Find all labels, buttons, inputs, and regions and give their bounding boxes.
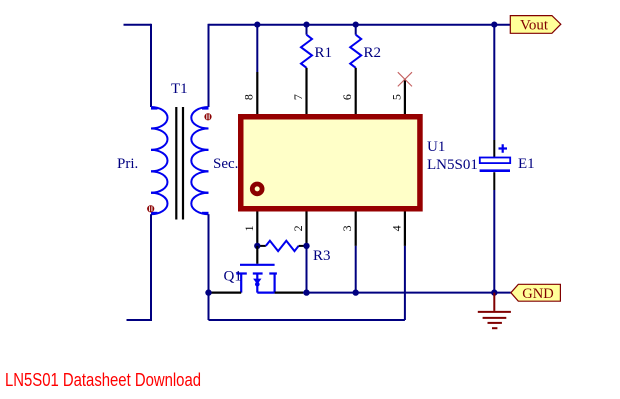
wire E1 column <box>493 25 495 140</box>
svg-text:5: 5 <box>389 94 403 100</box>
pin 4 <box>404 212 406 246</box>
ground symbol <box>478 293 511 329</box>
svg-text:Sec.: Sec. <box>213 156 238 172</box>
svg-text:Vout: Vout <box>520 18 549 34</box>
resistor R2 <box>355 25 357 35</box>
wire to GND flag <box>494 292 511 294</box>
power flag Vout <box>510 16 561 34</box>
wire secondary top lead <box>208 24 210 107</box>
svg-text:2: 2 <box>291 225 305 231</box>
wire top primary stub <box>124 24 152 26</box>
transformer polarity dot primary <box>147 205 154 212</box>
node junction top R1 <box>303 22 309 28</box>
IC U1 pin1 indicator <box>252 184 262 194</box>
svg-text:Pri.: Pri. <box>117 156 138 172</box>
node junction top Vout <box>491 22 497 28</box>
svg-text:Q1: Q1 <box>224 269 242 285</box>
svg-text:R1: R1 <box>315 45 333 61</box>
transformer polarity dot secondary <box>204 113 211 120</box>
wire pin2 down <box>306 246 308 293</box>
wire pin4 down <box>404 246 406 320</box>
wire bottom rail1 <box>303 292 494 294</box>
svg-text:6: 6 <box>340 94 354 100</box>
transistor Q1 <box>210 246 303 293</box>
pin 2 <box>305 212 307 246</box>
wire secondary bottom lead <box>208 214 210 320</box>
svg-text:R2: R2 <box>364 45 382 61</box>
svg-text:LN5S01: LN5S01 <box>427 157 478 173</box>
no-connect X on pin 5 <box>398 72 412 86</box>
power flag GND <box>511 284 561 302</box>
svg-text:3: 3 <box>340 225 354 231</box>
svg-text:7: 7 <box>291 94 305 100</box>
node junction top R2 <box>353 22 359 28</box>
pin 5 <box>404 79 406 114</box>
node junction rail1 pin2 <box>303 289 309 295</box>
wire top rail <box>209 24 495 26</box>
svg-text:R3: R3 <box>313 248 331 264</box>
svg-text:1: 1 <box>242 225 256 231</box>
pin 3 <box>355 212 357 246</box>
wire primary bottom lead <box>127 214 152 320</box>
svg-text:8: 8 <box>242 94 256 100</box>
node junction rail1 pin3 <box>353 289 359 295</box>
transformer T1 secondary winding <box>191 107 208 214</box>
wire pin3 down <box>355 246 357 293</box>
transformer T1 core <box>176 107 183 220</box>
node junction top pin8 <box>254 22 260 28</box>
svg-text:T1: T1 <box>171 81 188 97</box>
resistor R3 <box>257 245 266 247</box>
wire to Vout flag <box>494 24 510 26</box>
transformer T1 primary winding <box>151 107 168 214</box>
node junction R3 left <box>254 243 260 249</box>
svg-text:4: 4 <box>389 225 403 231</box>
resistor R1 <box>306 25 308 35</box>
capacitor E1 <box>480 144 511 170</box>
node junction R3 right <box>303 243 309 249</box>
node junction rail1 right <box>491 289 497 295</box>
svg-text:U1: U1 <box>427 139 445 155</box>
wire bottom rail2 <box>209 319 405 321</box>
pin 8 <box>256 25 258 72</box>
svg-text:GND: GND <box>522 286 553 302</box>
svg-text:E1: E1 <box>518 156 535 172</box>
svg-text:LN5S01 Datasheet Download: LN5S01 Datasheet Download <box>5 369 201 390</box>
node junction rail1 left <box>205 289 211 295</box>
pin 1 <box>256 212 258 246</box>
wire primary top lead <box>150 24 152 107</box>
IC U1 body <box>241 117 420 209</box>
